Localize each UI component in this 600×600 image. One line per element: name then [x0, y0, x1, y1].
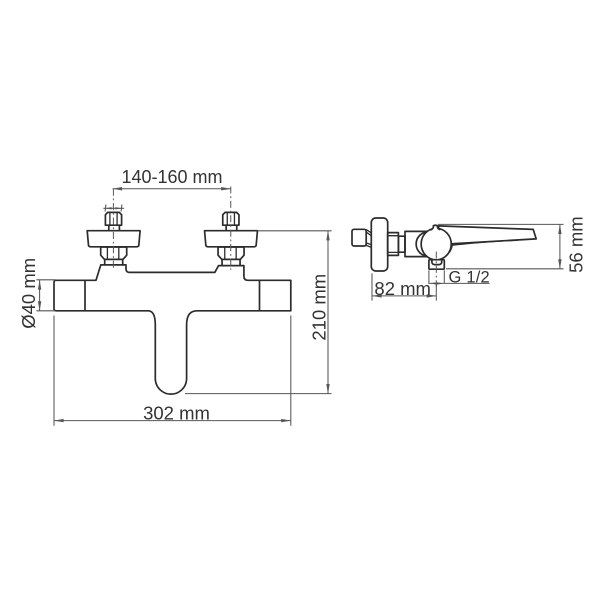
dimension 82 mm: line — [372, 295, 436, 297]
dimension G 1/2: extension lines — [428, 270, 430, 284]
left end cap inner edge — [84, 280, 86, 311]
side view: top indicator pip — [431, 225, 441, 230]
left connector: lower nut facets — [106, 247, 108, 259]
side view: horizontal valve cylinder — [405, 231, 431, 256]
side view: outlet inner cup — [432, 260, 442, 265]
right connector centerline — [230, 187, 232, 270]
side view: valve body ball — [421, 228, 451, 259]
left connector: upper neck — [109, 225, 120, 230]
dimension 56 mm: extension lines — [438, 223, 564, 225]
side view: nut behind flange — [388, 233, 399, 256]
dimension 56 mm: line — [559, 224, 561, 268]
svg-text:302 mm: 302 mm — [143, 402, 210, 423]
small thread width dimension: ticks — [104, 204, 107, 211]
side view: nut chamfer lines — [388, 236, 399, 253]
svg-text:210 mm: 210 mm — [308, 274, 329, 341]
side view: escutcheon flange (edge-on) — [371, 218, 387, 271]
side view: lever handle — [438, 226, 536, 252]
side view: wall hex nut — [352, 229, 366, 246]
dimension D40 mm: extension ticks — [36, 279, 55, 281]
right connector: upper neck — [226, 225, 237, 230]
side view: outlet lower nut — [429, 260, 444, 270]
dimension 302 mm: extension lines — [53, 316, 55, 426]
svg-text:G 1/2: G 1/2 — [449, 269, 490, 287]
dimension 82 mm: extension line — [371, 273, 373, 300]
dimension 210 mm: line — [327, 231, 329, 394]
svg-text:56 mm: 56 mm — [566, 216, 587, 273]
right end cap inner edge — [259, 280, 261, 311]
side view: rear flange arc — [416, 232, 440, 256]
dimension 302 mm: line — [54, 420, 291, 422]
right connector: top hex nut — [223, 212, 239, 225]
small thread width dimension: line and arrows — [103, 207, 124, 209]
right connector: lower nut facets — [224, 247, 226, 259]
left connector: top nut facets — [109, 213, 111, 225]
right connector: lower neck — [222, 259, 240, 265]
side view: neck ring — [398, 236, 405, 252]
dimension 140-160 mm: line — [113, 188, 231, 190]
front view: mixer body outline with spout — [54, 265, 291, 394]
svg-text:Ø40 mm: Ø40 mm — [18, 258, 39, 329]
left connector centerline — [112, 189, 114, 270]
dimension 210 mm: extension lines — [258, 230, 332, 232]
left connector: top hex nut — [105, 212, 121, 225]
left connector: lower nut — [101, 247, 127, 259]
right connector: wall flange — [205, 231, 258, 247]
left connector: lower neck — [105, 259, 123, 265]
right connector: lower nut — [218, 247, 244, 259]
right connector: top nut facets — [226, 213, 228, 225]
svg-text:140-160 mm: 140-160 mm — [121, 167, 222, 187]
left connector: wall flange — [87, 231, 140, 247]
side view: handle underside crease — [451, 240, 518, 245]
svg-text:82 mm: 82 mm — [374, 278, 431, 299]
dimension D40 mm: line — [39, 280, 41, 311]
side view: eccentric taper — [366, 230, 371, 248]
side view: outlet centerline — [435, 252, 437, 288]
dimension G 1/2: line with leader — [429, 282, 489, 284]
